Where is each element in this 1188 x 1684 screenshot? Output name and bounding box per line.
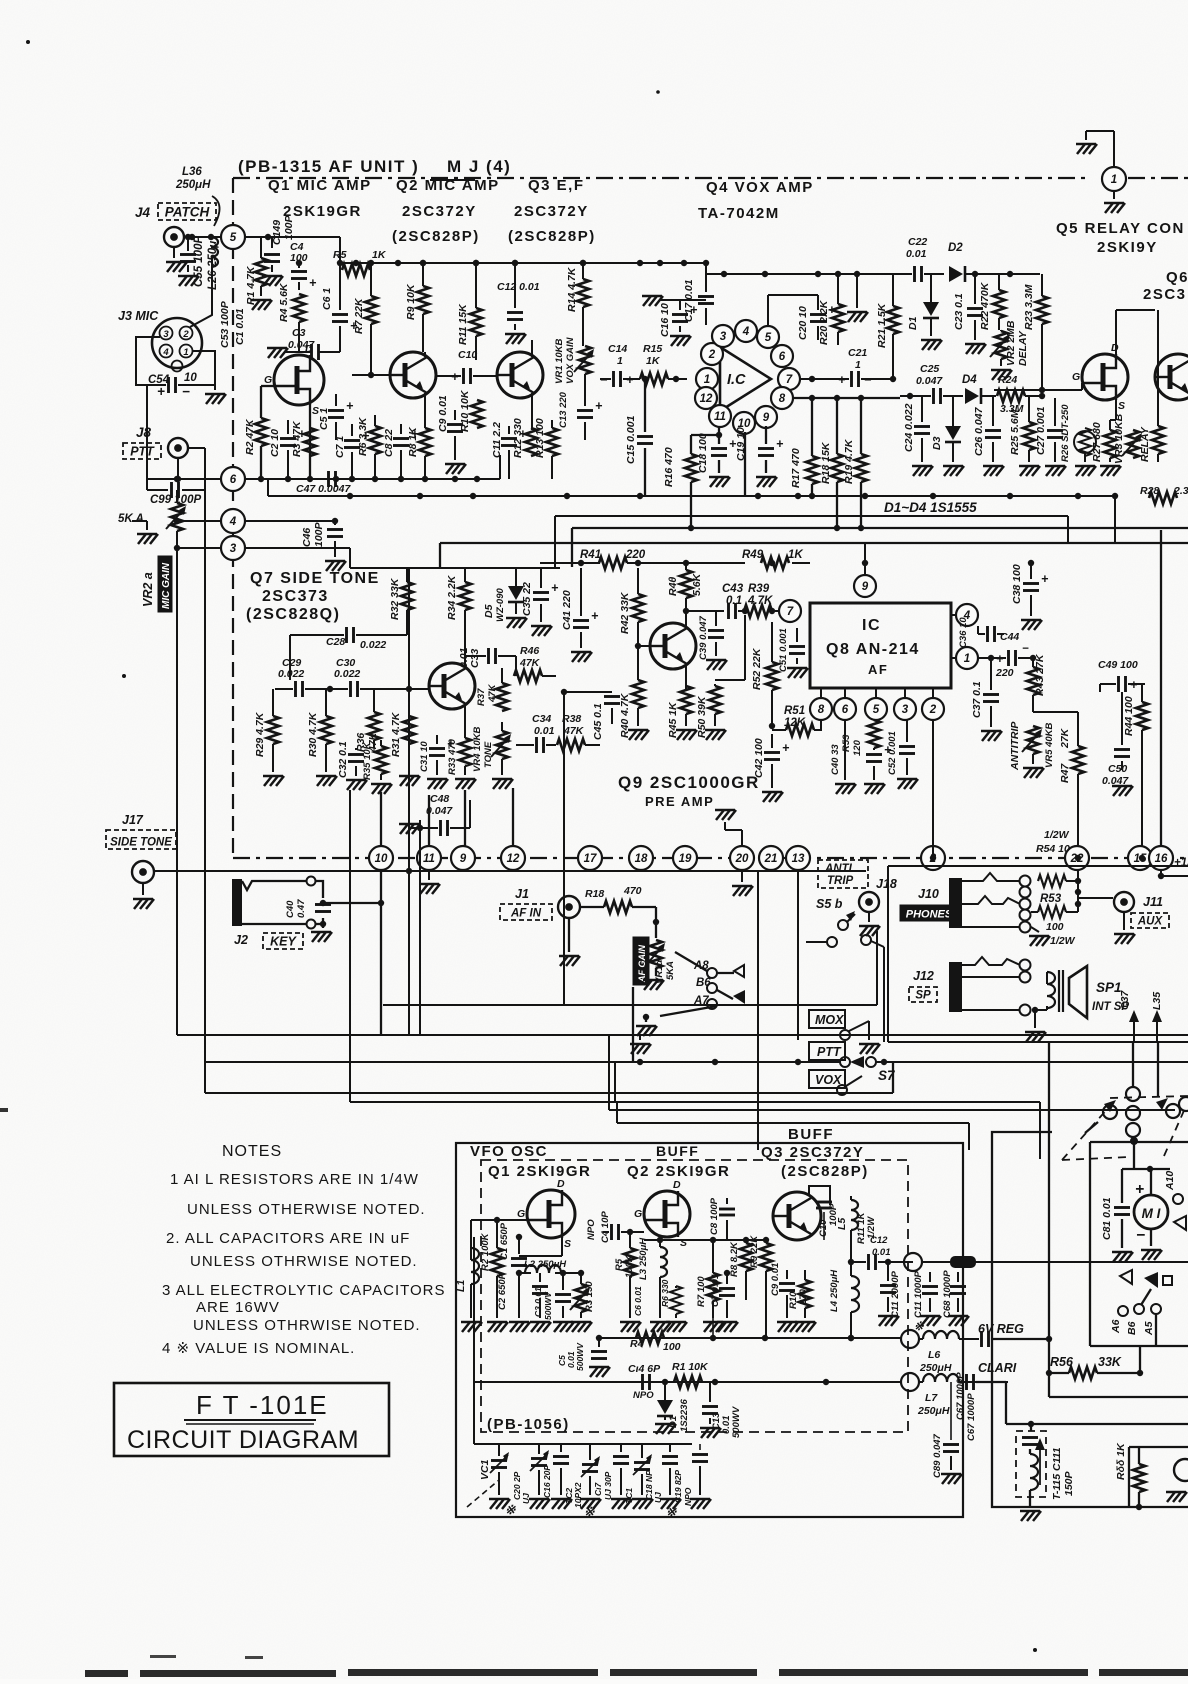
svg-text:C20 10: C20 10 (797, 306, 809, 340)
transistor Q2 vfo 2SK19GR (644, 1191, 690, 1237)
svg-text:Q4 VOX AMP: Q4 VOX AMP (706, 179, 814, 196)
pin 3 (160, 327, 173, 340)
svg-text:6: 6 (230, 474, 237, 486)
pin 3 (712, 325, 734, 347)
svg-text:※: ※ (505, 1503, 516, 1517)
svg-text:R11 15K: R11 15K (457, 303, 469, 345)
terminal 22 (1065, 846, 1089, 870)
svg-text:+: + (551, 581, 559, 595)
svg-text:4: 4 (742, 326, 750, 338)
svg-text:R4 5.6K: R4 5.6K (278, 282, 290, 322)
svg-text:R22 470K: R22 470K (979, 281, 991, 330)
svg-text:5.6K: 5.6K (691, 572, 703, 596)
wire term 3 row (177, 547, 234, 549)
svg-text:G: G (517, 1208, 525, 1220)
svg-text:2SC372Y: 2SC372Y (514, 203, 589, 220)
wire vfo q2 rail (644, 1239, 766, 1241)
ground term 11 (428, 870, 430, 880)
wire y1123 (617, 1122, 969, 1124)
svg-text:C50: C50 (1108, 763, 1127, 775)
svg-text:27K: 27K (1059, 727, 1071, 749)
jack J8 (168, 438, 188, 458)
terminal 9 (451, 846, 475, 870)
svg-text:Q2 2SKI9GR: Q2 2SKI9GR (627, 1163, 730, 1180)
svg-text:M J (4): M J (4) (447, 157, 511, 176)
jack J2 contacts (242, 881, 306, 890)
svg-text:6V REG: 6V REG (978, 1322, 1024, 1336)
svg-text:100: 100 (1046, 921, 1064, 933)
svg-text:R30 4.7K: R30 4.7K (307, 711, 319, 757)
wire long bus y496 (268, 495, 1115, 497)
svg-text:C46: C46 (301, 528, 313, 547)
wire q3 collector out (809, 1186, 830, 1205)
svg-text:9: 9 (862, 581, 869, 593)
vfo outer box (456, 1143, 963, 1517)
scan speck 2 (656, 90, 660, 94)
svg-text:R53: R53 (1040, 893, 1062, 905)
svg-text:UNLESS OTHERWISE NOTED.: UNLESS OTHERWISE NOTED. (187, 1201, 426, 1218)
svg-text:C15 0.001: C15 0.001 (625, 415, 637, 464)
svg-text:Q1 2SKI9GR: Q1 2SKI9GR (488, 1163, 591, 1180)
svg-text:C45 0.1: C45 0.1 (592, 703, 604, 740)
ground t115 (1029, 1490, 1031, 1507)
svg-text:C12 0.01: C12 0.01 (497, 281, 540, 293)
svg-text:+: + (591, 609, 599, 623)
svg-text:+: + (1135, 1181, 1144, 1198)
svg-text:0.047: 0.047 (916, 375, 943, 387)
svg-text:250μH: 250μH (917, 1405, 950, 1417)
svg-text:C16 10: C16 10 (659, 303, 671, 337)
wire key down (380, 870, 382, 1035)
svg-text:C1 650P: C1 650P (499, 1222, 510, 1260)
wire stub terminal 10 up (380, 792, 382, 847)
svg-text:12: 12 (507, 853, 520, 865)
node label MOX (809, 1010, 845, 1028)
wire pin6 ground (844, 720, 846, 780)
svg-text:L4 250μH: L4 250μH (829, 1269, 840, 1312)
svg-text:R14 4.7K: R14 4.7K (566, 266, 578, 312)
wire pin10 down (744, 432, 746, 496)
svg-text:2SKI9Y: 2SKI9Y (1097, 239, 1158, 256)
svg-text:R1 10K: R1 10K (672, 1361, 709, 1373)
svg-text:1: 1 (964, 653, 970, 665)
wire x893 right jack box (892, 1062, 894, 1093)
svg-text:R10 10K: R10 10K (459, 389, 471, 432)
wire jacks box bottom (888, 1041, 1188, 1043)
wire x1140 up (1139, 1346, 1141, 1373)
svg-text:C37 0.1: C37 0.1 (971, 681, 983, 718)
svg-text:19: 19 (679, 853, 692, 865)
svg-text:7: 7 (787, 606, 794, 618)
svg-text:J17: J17 (122, 813, 144, 827)
jack J4 (164, 227, 184, 247)
svg-text:G: G (264, 374, 272, 386)
wire x205 down (204, 448, 206, 868)
svg-text:C26 0.047: C26 0.047 (973, 406, 985, 456)
wire J3 pin1 to C54 (192, 351, 215, 385)
svg-text:C2 10: C2 10 (269, 429, 281, 457)
svg-text:4: 4 (162, 347, 169, 358)
svg-text:C36 10: C36 10 (958, 617, 969, 648)
wire pin7 node (809, 376, 815, 382)
meter M1 (1134, 1195, 1168, 1229)
svg-text:C51 0.001: C51 0.001 (778, 628, 789, 672)
svg-text:R8 8.2K: R8 8.2K (729, 1241, 740, 1277)
transistor Q2 2SC372Y (390, 352, 436, 398)
transistor Q6 (1155, 354, 1188, 400)
wire q1 source down (561, 1238, 563, 1256)
wire stub terminal 11 up (428, 795, 430, 847)
svg-text:MOX: MOX (815, 1013, 844, 1027)
wire bus D1-D4 y496 (268, 495, 1115, 497)
pin 1 (180, 345, 193, 358)
svg-text:0.022: 0.022 (334, 668, 360, 680)
pin 6 (771, 345, 793, 367)
terminal 5 (221, 225, 245, 249)
svg-text:(2SC828P): (2SC828P) (508, 228, 596, 245)
pin 6 (834, 698, 856, 720)
wire right column down to 15 (1141, 786, 1143, 847)
svg-text:11: 11 (423, 853, 435, 865)
wire bus y516 (555, 515, 1068, 517)
svg-text:5: 5 (765, 332, 772, 344)
svg-text:DELAY: DELAY (1017, 330, 1029, 366)
svg-text:C2 650P: C2 650P (497, 1272, 508, 1310)
svg-text:R17 470: R17 470 (790, 448, 802, 488)
svg-text:SP1: SP1 (1096, 980, 1122, 995)
svg-text:S: S (680, 1237, 687, 1249)
connector vfo out1 (904, 1253, 922, 1271)
wire m1 top (1122, 1168, 1170, 1170)
svg-text:ARE 16WV: ARE 16WV (196, 1299, 280, 1316)
svg-text:PATCH: PATCH (165, 205, 210, 220)
transistor Q7 2SC373 (429, 663, 475, 709)
svg-text:R12 330: R12 330 (512, 418, 524, 458)
svg-text:C39 0.047: C39 0.047 (698, 615, 709, 660)
wire x409 preamp box (408, 567, 410, 1035)
svg-text:1: 1 (183, 347, 188, 358)
svg-text:ANTITRIP: ANTITRIP (1009, 721, 1021, 771)
svg-text:R50 39K: R50 39K (696, 695, 708, 738)
svg-text:C53 100P: C53 100P (219, 300, 231, 348)
pin 2 (701, 343, 723, 365)
wire term2 vertical (932, 847, 934, 858)
ground J12 (1034, 1010, 1036, 1028)
svg-text:11: 11 (714, 411, 726, 423)
svg-text:1: 1 (1111, 174, 1117, 186)
ground below terminal 1 (1113, 191, 1115, 199)
wire mid rail y1338 (599, 1337, 901, 1339)
svg-text:L5: L5 (836, 1218, 848, 1230)
triangle contact A10 (1174, 1216, 1186, 1230)
svg-text:D: D (305, 343, 313, 355)
svg-text:SP: SP (915, 990, 931, 1002)
transistor Q9 2SC1000GR (650, 623, 696, 669)
svg-text:VC1: VC1 (479, 1459, 491, 1480)
connector vfo out2 (901, 1330, 919, 1348)
svg-text:A6: A6 (1110, 1319, 1122, 1334)
ground J17 (142, 883, 144, 895)
svg-text:C32 0.1: C32 0.1 (337, 741, 349, 778)
pin 5 (865, 698, 887, 720)
svg-text:CLARI: CLARI (978, 1361, 1017, 1375)
svg-text:C22: C22 (908, 236, 927, 248)
svg-text:500WV: 500WV (575, 1342, 585, 1371)
svg-text:21: 21 (764, 853, 778, 865)
svg-text:C23 0.1: C23 0.1 (953, 293, 965, 330)
svg-text:TRIP: TRIP (827, 875, 854, 887)
wire wafer feeds (1132, 1042, 1134, 1087)
svg-text:Q9 2SC1000GR: Q9 2SC1000GR (618, 773, 760, 792)
svg-text:C34: C34 (532, 713, 551, 725)
svg-text:Cι7: Cι7 (593, 1482, 603, 1497)
ground 5KA (146, 521, 148, 530)
svg-text:R54 10: R54 10 (1036, 843, 1070, 855)
svg-text:R9 10K: R9 10K (405, 283, 417, 320)
pin 11 (709, 405, 731, 427)
svg-text:J11: J11 (1143, 895, 1163, 909)
svg-text:R5: R5 (333, 249, 347, 261)
svg-text:R41: R41 (580, 549, 601, 561)
svg-text:Q2 MIC AMP: Q2 MIC AMP (396, 177, 500, 194)
svg-text:Cι4 6P: Cι4 6P (628, 1363, 661, 1375)
wire J3 pin2 up (190, 258, 212, 327)
svg-text:1 AI L RESISTORS ARE IN 1: 1 AI L RESISTORS ARE IN 1/4W (170, 1171, 419, 1188)
svg-text:250μH: 250μH (919, 1362, 952, 1374)
svg-text:8: 8 (779, 393, 786, 405)
wire x758 (757, 870, 759, 1005)
svg-text:C6 1: C6 1 (321, 288, 333, 310)
svg-text:250μH: 250μH (175, 179, 211, 191)
svg-text:16: 16 (1155, 853, 1168, 865)
transformer T-115 dashed box (1016, 1431, 1046, 1497)
wire long bus y1035 (177, 1034, 1188, 1036)
svg-text:VOX GAIN: VOX GAIN (565, 336, 576, 384)
wire y1005 line (383, 1004, 877, 1006)
svg-text:2SC3: 2SC3 (1143, 286, 1187, 303)
wire long bus y1093 (205, 1092, 893, 1094)
svg-text:1: 1 (855, 359, 861, 371)
svg-text:R16 470: R16 470 (663, 447, 675, 487)
svg-text:R7 100: R7 100 (696, 1276, 707, 1307)
svg-text:(PB-1056): (PB-1056) (487, 1416, 570, 1433)
wire term 4 row (177, 520, 222, 522)
svg-text:Q1 MIC AMP: Q1 MIC AMP (268, 177, 372, 194)
svg-text:17: 17 (584, 853, 597, 865)
svg-text:+: + (309, 276, 317, 290)
wire pair to meter switch (615, 1101, 1040, 1103)
svg-text:Q7 SIDE TONE: Q7 SIDE TONE (250, 570, 380, 587)
svg-text:−: − (1136, 1227, 1145, 1244)
svg-text:AUX: AUX (1137, 916, 1164, 928)
svg-text:1S2236: 1S2236 (679, 1399, 690, 1432)
svg-text:J2: J2 (234, 933, 248, 947)
svg-text:R3 47K: R3 47K (291, 420, 303, 457)
svg-text:VOX: VOX (815, 1073, 842, 1087)
svg-text:NPO: NPO (633, 1390, 654, 1401)
node label AF GAIN (633, 937, 649, 985)
svg-text:6: 6 (842, 704, 849, 716)
svg-text:R6 3.3K: R6 3.3K (357, 416, 369, 456)
wire pin7 row (686, 610, 716, 612)
wire +13 stub (1160, 870, 1162, 876)
svg-text:(2SC828Q): (2SC828Q) (246, 606, 340, 623)
svg-text:S: S (1118, 400, 1125, 412)
svg-text:1/2W: 1/2W (1050, 935, 1076, 947)
svg-text:R26 SDT-250: R26 SDT-250 (1060, 404, 1071, 462)
svg-text:C67 1000P: C67 1000P (966, 1393, 977, 1441)
scan speck 3 (122, 674, 126, 678)
svg-text:R39: R39 (748, 583, 770, 595)
svg-text:+: + (690, 303, 698, 317)
svg-text:KEY: KEY (270, 935, 297, 949)
ic Q8 AN-214 box (810, 603, 951, 688)
svg-text:R42 33K: R42 33K (619, 591, 631, 634)
svg-text:PTT: PTT (817, 1045, 842, 1059)
svg-text:J12: J12 (913, 969, 934, 983)
svg-text:C99 100P: C99 100P (150, 494, 201, 506)
wire relay gate node (994, 389, 1082, 391)
svg-text:Q8 AN-214: Q8 AN-214 (826, 641, 920, 658)
wafer contacts (1103, 1105, 1117, 1119)
svg-text:R24: R24 (998, 374, 1017, 386)
svg-text:MIC GAIN: MIC GAIN (161, 562, 172, 609)
svg-text:C28: C28 (326, 636, 345, 648)
ground A7 switch (660, 1006, 717, 1016)
svg-text:5: 5 (873, 704, 880, 716)
svg-text:C1 0.01: C1 0.01 (234, 308, 246, 345)
transistor Q1 2SK19GR (274, 355, 324, 405)
svg-text:BUFF: BUFF (656, 1143, 699, 1159)
wire gnd stub above 20 (741, 830, 743, 847)
wire Q2 base (352, 374, 390, 376)
wire bus 6 row (245, 478, 500, 480)
svg-text:(2SC828P): (2SC828P) (392, 228, 480, 245)
svg-text:7: 7 (786, 374, 793, 386)
svg-text:+: + (157, 384, 165, 399)
svg-text:D: D (673, 1179, 681, 1191)
svg-text:R19 4.7K: R19 4.7K (843, 438, 855, 484)
svg-text:500WV: 500WV (731, 1406, 742, 1438)
speaker SP1 core (1058, 970, 1060, 1012)
svg-text:UJ: UJ (653, 1492, 663, 1503)
svg-text:Rδδ 1K: Rδδ 1K (1115, 1442, 1127, 1480)
wire pin8 right (793, 397, 900, 399)
terminal 3 (221, 536, 245, 560)
pin 3 (894, 698, 916, 720)
meter selector triangles (1120, 1270, 1132, 1284)
svg-text:R46: R46 (520, 645, 539, 657)
terminal 6 (221, 467, 245, 491)
svg-text:T-115 C111: T-115 C111 (1051, 1447, 1063, 1500)
terminal 19 (673, 846, 697, 870)
svg-text:C12: C12 (870, 1235, 888, 1246)
wire bus y543 (440, 542, 1188, 544)
svg-text:VR5 40KB: VR5 40KB (1044, 722, 1055, 768)
terminal 20 (730, 846, 754, 870)
svg-text:NPO: NPO (586, 1219, 597, 1240)
title block box (114, 1383, 389, 1456)
svg-text:C18 100: C18 100 (697, 433, 709, 473)
speaker SP1 coil (1047, 972, 1055, 1008)
svg-text:TC1: TC1 (624, 1488, 634, 1504)
svg-text:9: 9 (763, 412, 770, 424)
svg-text:R6 330: R6 330 (660, 1279, 670, 1307)
svg-text:1: 1 (617, 355, 623, 367)
svg-text:0.022: 0.022 (278, 668, 304, 680)
transistor Q1 vfo 2SK19GR (527, 1190, 575, 1238)
svg-text:12: 12 (700, 393, 713, 405)
pin 10 (733, 412, 755, 434)
wire stub terminal 12 up (512, 788, 514, 847)
svg-text:C48: C48 (430, 793, 449, 805)
svg-text:C47 0.0047: C47 0.0047 (296, 483, 351, 495)
resistor R54 10 (1038, 875, 1066, 887)
wire AF unit dashed border left (232, 178, 234, 858)
svg-text:CIRCUIT DIAGRAM: CIRCUIT DIAGRAM (127, 1426, 359, 1454)
op-amp U1 IC triangle (720, 347, 771, 411)
svg-text:ANTI: ANTI (824, 863, 853, 875)
wire pin5 up (767, 295, 769, 326)
svg-text:C37: C37 (1119, 990, 1131, 1010)
svg-text:+: + (776, 437, 784, 451)
svg-text:VR2 2MB: VR2 2MB (1005, 320, 1017, 366)
wire x420 (419, 820, 421, 1035)
svg-text:C41 220: C41 220 (561, 590, 573, 630)
wire term5 right rail (245, 236, 272, 238)
svg-text:PHONES: PHONES (906, 909, 953, 921)
wire af gain to S7 (632, 987, 634, 1062)
capacitor C68 series (980, 1331, 983, 1347)
svg-text:4: 4 (229, 516, 237, 528)
transistor Q5 2SK19Y FET (1082, 354, 1128, 400)
svg-text:PRE AMP: PRE AMP (645, 794, 714, 809)
svg-text:IC: IC (862, 617, 881, 634)
svg-text:2: 2 (929, 704, 937, 716)
svg-text:500WV: 500WV (543, 1291, 553, 1320)
svg-text:120: 120 (852, 739, 863, 756)
pin 8 (771, 387, 793, 409)
svg-text:R47: R47 (1059, 763, 1071, 783)
svg-text:A5: A5 (1143, 1321, 1155, 1336)
wire bus y1100 (350, 1101, 615, 1103)
wire out1 to bullet (922, 1261, 950, 1263)
wire pin8 to R51 (814, 720, 821, 730)
svg-text:C11 2000P: C11 2000P (890, 1271, 901, 1318)
svg-text:J4: J4 (135, 205, 151, 220)
wire key node right (323, 902, 381, 904)
speaker SP1 cone (1069, 966, 1087, 1018)
svg-text:AF IN: AF IN (510, 908, 542, 920)
svg-text:R23 3.3M: R23 3.3M (1023, 284, 1035, 330)
svg-text:+: + (1041, 572, 1049, 586)
scan speck left edge (0, 1108, 8, 1112)
pin 2 (922, 698, 944, 720)
svg-text:B6: B6 (1126, 1321, 1138, 1335)
pin 1 (956, 647, 978, 669)
svg-text:C40: C40 (285, 900, 296, 918)
connector bullet out1 (950, 1256, 976, 1268)
svg-text:C40 33: C40 33 (830, 744, 841, 775)
svg-text:5KA: 5KA (665, 961, 676, 980)
wire J17 right (154, 870, 866, 872)
svg-text:9: 9 (460, 853, 467, 865)
svg-text:5: 5 (230, 232, 237, 244)
svg-text:R13 100: R13 100 (534, 418, 546, 458)
svg-text:UJ 30P: UJ 30P (603, 1471, 613, 1500)
transistor Q3 2SC372Y (497, 352, 543, 398)
wire t115 up (1030, 1424, 1032, 1431)
